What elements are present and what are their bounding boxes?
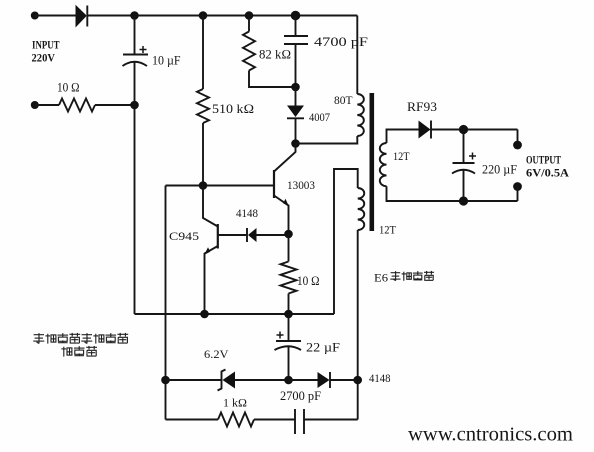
wire: 510k bottom lead to base node	[202, 123, 204, 186]
wire: output right bottom corner	[517, 187, 519, 202]
node: 220uF top junction	[459, 125, 468, 134]
wire: 4700pF top lead	[295, 16, 297, 37]
resistor 10 Ohm (input)	[59, 99, 95, 112]
node: emitter / 10 ohm node	[284, 230, 293, 239]
capacitor 4700 pF	[284, 36, 308, 44]
wire: rail up to feedback winding	[334, 169, 358, 314]
svg-text:INPUT: INPUT	[32, 38, 60, 52]
wire: emitter node to 10 ohm	[288, 234, 290, 262]
zener diode ZD1 6.2V	[218, 370, 236, 391]
wire: 4700pF bottom lead	[295, 44, 297, 87]
svg-text:12T: 12T	[393, 149, 410, 163]
capacitor C5 220uF electrolytic	[452, 153, 476, 174]
label E6 core	[374, 271, 434, 285]
svg-text:6V/0.5A: 6V/0.5A	[526, 168, 570, 180]
label title (Chinese): phone charger power converter	[33, 333, 128, 357]
diode D2 4007	[287, 106, 304, 119]
node: input bottom terminal	[31, 101, 39, 109]
resistor 1 kOhm	[218, 413, 254, 427]
label OUTPUT 6V/0.5A	[526, 155, 570, 180]
wire: 1k to 2700pF	[254, 419, 295, 421]
wire: 510k top lead	[202, 16, 204, 90]
svg-text:OUTPUT: OUTPUT	[526, 155, 561, 167]
node: 82k branch on top rail	[245, 11, 254, 20]
capacitor C1 10uF electrolytic	[123, 46, 149, 66]
wire: zener rail left segment	[166, 379, 222, 381]
node: output terminal +	[513, 141, 522, 150]
svg-text:4148: 4148	[236, 206, 258, 220]
transformer feedback winding 12T	[358, 188, 365, 230]
node: left end of zener rail	[161, 376, 170, 385]
wire: 4148 cathode to winding node	[330, 379, 358, 381]
svg-text:510 kΩ: 510 kΩ	[212, 101, 254, 116]
svg-text:22 µF: 22 µF	[306, 340, 340, 355]
wire: RF93 cathode to output corner	[431, 129, 518, 131]
diode D4 4148 (bottom)	[318, 372, 331, 388]
wire: 82k top lead	[248, 16, 250, 32]
wire: primary bottom to collector node	[296, 136, 358, 144]
wire: top rail down to 10uF	[134, 16, 136, 55]
wire: secondary top stub	[387, 130, 419, 144]
wire: 220uF top lead	[463, 130, 465, 164]
svg-text:12T: 12T	[379, 223, 397, 237]
transistor Q1 13003	[274, 144, 296, 235]
wire: emitter/common rail	[135, 313, 335, 315]
svg-text:E6: E6	[374, 271, 388, 285]
transformer core bar	[370, 93, 375, 231]
wire: 10uF bottom to node	[134, 62, 136, 105]
wire: secondary bottom stub	[387, 186, 518, 201]
wire: C945 base lead	[218, 234, 247, 236]
wire: feedback winding down to 4148 node	[357, 230, 359, 420]
svg-text:13003: 13003	[287, 178, 315, 192]
wire: top rail left segment	[35, 15, 76, 17]
wire: zener to 22uF node	[235, 379, 289, 381]
svg-text:1 kΩ: 1 kΩ	[223, 396, 247, 410]
svg-text:4007: 4007	[309, 110, 330, 124]
wire: 4007 anode lead	[295, 87, 297, 106]
wire: 2700pF to right corner up	[304, 419, 358, 421]
resistor 10 Ohm (emitter)	[281, 262, 297, 294]
svg-text:4700 pF: 4700 pF	[314, 34, 368, 49]
node: feedback winding / 4148 junction	[353, 376, 362, 385]
transistor Q2 C945	[204, 224, 218, 314]
node: 510k branch on top rail	[199, 11, 208, 20]
wire: top rail right corner down to primary	[356, 16, 358, 95]
node: junction 10 ohm / 10uF / left vertical	[130, 101, 139, 110]
wire: base feedback vertical to zener rail	[165, 186, 167, 420]
wire: 220uF bottom lead	[463, 170, 465, 201]
svg-text:2700 pF: 2700 pF	[280, 388, 321, 403]
node: C945 emitter on rail	[200, 310, 209, 319]
svg-text:10 Ω: 10 Ω	[57, 80, 80, 95]
svg-text:www.cntronics.com: www.cntronics.com	[408, 424, 573, 446]
wire: top rail from rectifier to right corner	[87, 15, 357, 17]
svg-text:220 µF: 220 µF	[482, 162, 517, 177]
svg-text:4148: 4148	[369, 371, 391, 385]
node: base node junction with 510k	[199, 181, 208, 190]
node: 10uF branch on top rail	[130, 11, 139, 20]
wire: 22uF bottom to zener rail	[288, 347, 290, 380]
diode D1 input rectifier	[76, 5, 88, 28]
capacitor C3 22uF electrolytic	[275, 332, 302, 351]
wire: rail node down to 22uF	[288, 314, 290, 341]
wire: left vertical down to emitter rail	[134, 105, 136, 314]
svg-text:C945: C945	[169, 229, 199, 243]
svg-text:RF93: RF93	[407, 99, 437, 114]
wire: input bottom lead	[35, 104, 59, 106]
node: 4700pF branch on top rail	[291, 11, 301, 21]
svg-text:10 µF: 10 µF	[152, 53, 181, 68]
diode D3 4148 (base clamp)	[247, 228, 257, 242]
wire: 4007 cathode to collector node	[295, 118, 297, 143]
wire: node to 4148 anode	[289, 379, 318, 381]
node: 220uF bottom junction	[459, 196, 468, 205]
wire: bottom rail left segment	[166, 419, 219, 421]
wire: C945 collector lead	[203, 186, 218, 227]
node: 10 ohm bottom on rail	[284, 310, 293, 319]
wire: 4148 anode to emitter node	[257, 234, 289, 236]
wire: input bottom to 10uF node	[95, 104, 135, 106]
svg-text:80T: 80T	[334, 93, 353, 107]
node: input top terminal	[31, 12, 39, 20]
wire: 10 ohm bottom to rail	[288, 294, 290, 315]
svg-text:220V: 220V	[32, 51, 56, 65]
label INPUT 220V	[32, 38, 60, 65]
wire: base wire of 13003	[166, 185, 275, 187]
diode D5 RF93	[419, 121, 432, 139]
resistor 82 kOhm	[243, 32, 255, 71]
wire: output right top corner	[517, 130, 519, 146]
transformer secondary winding 12T	[380, 143, 387, 186]
svg-text:10 Ω: 10 Ω	[297, 273, 320, 288]
svg-text:6.2V: 6.2V	[204, 347, 229, 361]
wire: 82k bottom lead to 4007 node	[249, 71, 296, 88]
node: 22uF bottom on zener rail	[284, 376, 293, 385]
node: 82k / 4700pF / 4007 junction	[291, 83, 300, 92]
node: 4007 / primary / collector junction	[291, 139, 300, 148]
svg-text:82 kΩ: 82 kΩ	[259, 47, 291, 62]
capacitor C4 2700 pF	[295, 409, 304, 434]
resistor 510 kOhm	[197, 89, 209, 123]
transformer primary winding 80T	[357, 94, 364, 136]
node: output terminal -	[513, 182, 522, 191]
